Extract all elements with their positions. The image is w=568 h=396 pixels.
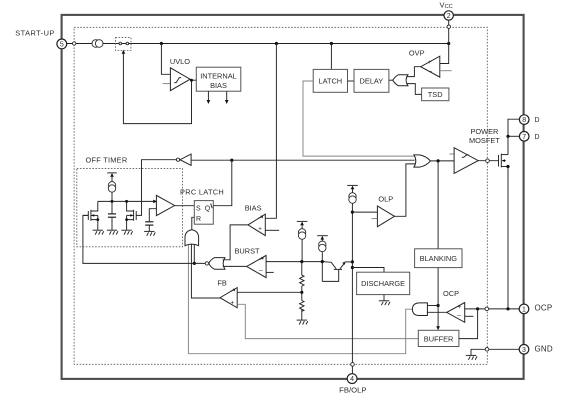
svg-text:+: + [428,59,432,66]
pin 1 OCP [519,304,529,314]
wire divider middle [301,286,303,301]
node drain pin7 [506,135,509,138]
wire: FB plus input to BUFFER [237,304,418,338]
svg-text:TSD: TSD [428,90,443,99]
supply bar for discharge source [317,235,328,237]
off-timer rail [98,200,154,202]
svg-text:UVLO: UVLO [170,57,190,66]
pin 8 D [519,115,529,125]
wire: OR output to driver [430,160,454,162]
wire: rail to OVP plus input [440,44,449,64]
wire: BURST plus input to divider node [266,261,325,263]
svg-text:FB/OLP: FB/OLP [339,386,366,395]
OCP minus stub [465,315,474,317]
wire: DELAY to OR gate [389,79,393,81]
pin 2 VCC [444,11,453,20]
wire: TSD to OR gate [406,84,421,95]
wire divider upper [301,262,303,276]
wire: OVP output to OR gate [406,67,420,77]
node emitter [351,260,354,263]
driver triangle [454,148,478,174]
off-timer supply bar [107,172,117,174]
BLANKING box [415,249,462,268]
node: OCP crossing dashed border [485,307,489,311]
internal bias output arrows [207,91,209,100]
wire: inverter output to off-timer mosfet gate [136,160,176,216]
supply bar for FB divider source [297,220,308,222]
start-up switch dashed box [116,38,132,51]
wire: gate node down to BLANKING [437,161,439,249]
pin 5 START-UP [57,39,67,49]
ground under M3 [121,230,132,234]
node blanking/and [437,304,440,307]
node on rail: latch feed [330,42,333,45]
capacitor C2 [145,209,156,232]
svg-text:GND: GND [535,344,553,353]
AND gate OCP [412,303,427,316]
wire: pin2 to rail [448,20,450,43]
wire: discharge tap to DISCHARGE box [352,268,384,273]
wire: BLANKING down to OCP and [437,268,439,306]
off-timer amplifier [156,195,174,215]
svg-text:8: 8 [522,117,526,124]
wire: gnd stub [470,349,472,355]
wire: R input from OR gate [192,217,195,230]
BUFFER box [418,330,459,346]
svg-text:BUFFER: BUFFER [424,335,454,344]
resistor R2 [300,301,304,312]
IC outer border [62,15,524,379]
svg-text:FB: FB [217,278,227,287]
svg-text:D: D [535,134,540,141]
wire: PRC latch Q long line [191,159,414,161]
node on rail: UVLO tap [160,42,163,45]
OR gate (OVP/TSD to DELAY) [393,75,408,86]
wire: GND line [471,348,519,350]
OR gate (latch reset) [185,230,199,246]
svg-text:BURST: BURST [235,246,261,255]
wire: OCP-AND output long path [188,245,412,354]
svg-text:S: S [196,205,201,212]
supply bar for OLP source [347,184,358,186]
wire: OCP plus input to pin 1 [465,308,520,310]
LATCH box [313,69,347,92]
OLP current source [349,193,356,200]
ground at GND pin [466,355,477,359]
svg-text:OCP: OCP [443,289,459,298]
PRC latch box [194,201,213,225]
wire: drain to pins 8 and 7 [508,119,519,154]
comparator OCP [447,303,465,323]
svg-text:2: 2 [447,13,451,20]
wire: LATCH output to drive OR gate (upper) [303,81,416,156]
wire: LATCH to DELAY [348,80,355,82]
svg-text:−: − [457,313,461,320]
control circuit dashed boundary [74,27,487,364]
switch control arrow [122,50,126,54]
switch contacts [119,42,122,45]
OR gate drive logic [414,155,431,167]
OVP minus stub [440,70,452,72]
TSD box [422,88,449,101]
wire: BUFFER to OCP plus line [459,309,478,339]
ground under DISCHARGE [379,301,390,305]
inverter [180,154,191,165]
driver slope mark [462,155,469,158]
ground under M2 [93,230,104,234]
comparator FB [220,288,237,308]
svg-text:PRC LATCH: PRC LATCH [180,188,224,197]
node on rail: bias comparator feed [275,42,278,45]
svg-text:DISCHARGE: DISCHARGE [361,279,405,288]
NOR gate burst [209,258,225,270]
pin 3 GND [519,345,529,355]
wire: divider mid to FB minus input [237,291,302,293]
svg-text:BLANKING: BLANKING [420,254,458,263]
FB current source [298,229,305,236]
BURST minus stub [266,271,274,273]
svg-text:7: 7 [522,134,526,141]
comparator BURST [247,255,266,277]
svg-text:Q: Q [205,205,211,212]
ground under divider [297,320,308,324]
wire: Q output up to long line [213,160,232,206]
INTERNAL BIAS box [196,67,241,91]
wire: driver to MOSFET gate [478,160,498,162]
transistor M2 (left off-timer MOSFET) [83,201,99,230]
ground under C2 [144,231,155,235]
NOR bubble [205,262,208,265]
ground under C1 [107,230,118,234]
svg-text:MOSFET: MOSFET [469,136,500,145]
comparator OLP [377,206,394,227]
comparator BIAS [248,214,265,235]
svg-text:OFF TIMER: OFF TIMER [86,155,128,164]
wire: source down to OCP line [507,167,509,309]
svg-text:3: 3 [522,347,526,354]
svg-text:INTERNAL: INTERNAL [200,71,237,80]
power MOSFET [499,154,509,168]
wire: rail to LATCH top [330,44,332,70]
node Q line [230,159,233,162]
wire: main VCC rail y=43.5 [67,43,449,45]
svg-text:−: − [259,268,263,275]
wire: current source to rail [111,192,113,201]
svg-text:BIAS: BIAS [210,81,227,90]
wire: OLP output to drive OR gate [395,164,416,216]
node: FB crossing dashed border [351,363,355,367]
transistor M3 (right off-timer MOSFET) [125,201,136,230]
DELAY box [354,69,389,92]
svg-text:OLP: OLP [378,194,393,203]
wire: rail down to BIAS comparator [265,44,276,219]
wire: BURST output to NOR [223,265,247,267]
off-timer current source [108,182,115,189]
comparator OVP [421,56,440,77]
transistor Q1 [322,262,352,282]
svg-text:−: − [428,68,432,75]
inverter bubble [176,158,179,161]
svg-text:+: + [458,304,462,311]
svg-text:VCC: VCC [440,0,453,10]
OLP minus stub [372,218,378,220]
svg-text:R: R [196,216,201,223]
wire divider lower [301,309,303,320]
svg-text:DELAY: DELAY [360,77,384,86]
node: gate crossing dashed border [486,159,490,163]
pin 7 D [519,132,529,142]
resistor R1 [300,275,304,286]
node discharge tap [351,266,354,269]
wire: current source down through node [321,252,323,282]
svg-text:OCP: OCP [535,304,553,313]
BIAS minus stub [265,229,279,231]
pin 4 FB/OLP [347,374,357,384]
node divider top [300,260,303,263]
svg-text:OVP: OVP [409,48,425,57]
wire: UVLO to switch control [123,54,191,124]
capacitor C1 [108,201,116,230]
op-amp UVLO [170,68,190,91]
node buffer tap [476,307,479,310]
node gate drive [437,159,440,162]
node source [506,165,509,168]
wire: DISCHARGE to ground [383,295,385,301]
wire: AND upper input [427,305,438,307]
svg-text:LATCH: LATCH [318,77,342,86]
svg-text:+: + [230,300,234,307]
node burst line [193,262,196,265]
wire: pin4 column [351,203,353,373]
wire: to OLP comparator input [352,211,377,213]
node base feed [321,260,324,263]
node VCC rail / OVP [447,42,450,45]
OFF TIMER dashed box [77,169,183,247]
rail arrowhead into amp [153,200,157,204]
wire: burst line to OR gate [193,245,195,264]
wire: FB output to OR gate [191,244,220,298]
node UVLO output [190,79,193,82]
UVLO minus stub [163,83,171,85]
node: VCC crossing dashed border [447,25,450,28]
wire: NOR output to off-timer gate [83,215,205,263]
svg-text:POWER: POWER [470,127,498,136]
wire: OCP comparator output to AND [427,311,446,313]
node divider mid [300,291,303,294]
DISCHARGE box [357,272,410,294]
node: GND crossing dashed border [485,348,489,352]
wire: current source to divider [301,239,303,261]
svg-text:4: 4 [350,376,354,383]
node source sense [506,307,509,310]
node OLP input [351,211,354,214]
svg-text:5: 5 [60,42,64,49]
node: start-up crossing dashed border [73,42,76,45]
wire: UVLO output [190,79,196,81]
svg-text:BIAS: BIAS [245,204,262,213]
discharge current source [319,241,326,248]
wire: BIAS output to NOR [223,225,248,260]
svg-text:START-UP: START-UP [15,29,54,38]
svg-text:D: D [535,117,540,124]
wire: arrow into BUFFER [437,306,439,327]
driver enable stub [449,153,454,155]
wire: rail to UVLO input [161,44,170,75]
svg-text:+: + [258,225,262,232]
svg-text:1: 1 [522,307,526,314]
wire: amp output to PRC latch S [175,205,195,207]
UVLO hysteresis mark [174,78,181,83]
start-up current source [92,40,100,48]
